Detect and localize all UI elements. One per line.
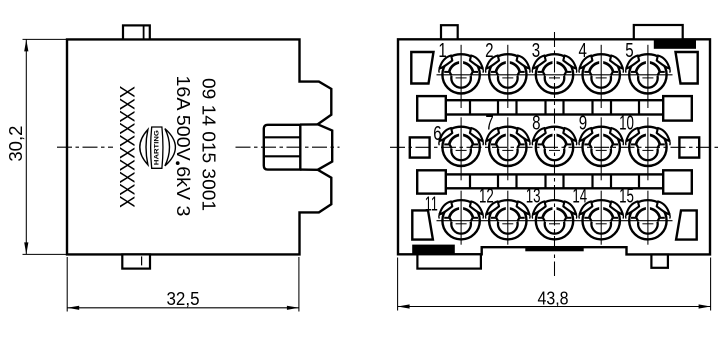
svg-text:13: 13 <box>526 185 541 208</box>
svg-text:4: 4 <box>579 39 587 62</box>
dimension 32,5 arrow right <box>287 306 299 310</box>
dimension 32,5 line <box>67 307 299 309</box>
slot bar 2 divider at x=498 <box>497 174 499 188</box>
dimension 30,2 arrow up <box>24 39 28 51</box>
contact nose bottom edge <box>300 168 318 171</box>
bottom fixing tab <box>122 254 150 268</box>
coding mark black bottom left <box>412 245 455 255</box>
HARTING logo right crescent <box>165 129 176 166</box>
slot bar 2 divider at x=545.5 <box>544 174 546 188</box>
slot bar 2 divider at x=563.5 <box>562 174 564 188</box>
bottom right small tab <box>651 255 668 268</box>
polarization slot bar 2 body <box>446 174 663 188</box>
contact 7 vertical axis line <box>507 117 509 180</box>
dimension 43,8 line <box>398 306 711 308</box>
svg-text:15: 15 <box>619 185 634 208</box>
svg-text:10: 10 <box>619 112 634 135</box>
HARTING logo left crescent <box>140 130 148 165</box>
svg-text:16A 500V 6kV 3: 16A 500V 6kV 3 <box>173 76 194 217</box>
slot bar 2 divider at x=516.5 <box>515 174 517 188</box>
guide pocket top right <box>676 52 698 84</box>
svg-text:32,5: 32,5 <box>167 288 200 309</box>
bottom left tab <box>417 254 481 268</box>
svg-text:9: 9 <box>579 112 587 135</box>
top fixing tab <box>123 25 150 39</box>
coding mark black top right <box>654 39 696 49</box>
contact 9 vertical axis line <box>600 117 602 180</box>
contact 2 vertical axis line <box>507 45 509 108</box>
HARTING logo barrel <box>151 127 163 168</box>
vertical centre line right view <box>554 32 556 276</box>
slot bar 2 right end cap <box>663 170 692 193</box>
contact 3 cavity <box>532 54 576 93</box>
contact 5 vertical axis line <box>647 45 649 108</box>
contact 12 vertical axis line <box>507 191 509 245</box>
contact 14 cavity <box>579 200 623 239</box>
svg-text:11: 11 <box>425 192 438 215</box>
contact 13 cavity <box>532 200 576 239</box>
svg-text:HARTING: HARTING <box>154 130 161 165</box>
slot bar 1 divider at x=611 <box>610 100 612 114</box>
contact 1 cavity <box>439 54 483 93</box>
dimension 32,5 extension line left <box>66 257 68 312</box>
HARTING logo registered mark dot <box>176 161 180 165</box>
coding mark black bottom middle <box>525 247 583 251</box>
top small tab <box>441 25 458 39</box>
contact 12 cavity <box>486 200 530 239</box>
contact 15 vertical axis line <box>647 191 649 245</box>
module body outline with mating-side profile <box>67 39 332 254</box>
top tab inner line <box>143 25 145 39</box>
svg-text:3: 3 <box>532 39 540 62</box>
centre line mask behind marking texts <box>113 139 232 155</box>
left view centre line <box>57 146 340 148</box>
svg-text:XXXXXXXXXX: XXXXXXXXXX <box>115 86 138 208</box>
row 3 horizontal axis line <box>437 220 673 222</box>
side square left <box>410 137 430 157</box>
contact 4 cavity <box>579 54 623 93</box>
slot bar 2 divider at x=470 <box>469 174 471 188</box>
slot bar 1 divider at x=470 <box>469 100 471 114</box>
top wide tab <box>634 25 683 39</box>
slot bar 1 left end cap <box>417 96 446 121</box>
slot bar 1 divider at x=639 <box>638 100 640 114</box>
guide pocket top left <box>411 52 433 84</box>
svg-text:09 14 015 3001: 09 14 015 3001 <box>199 78 220 211</box>
contact 7 cavity <box>486 127 530 166</box>
svg-text:12: 12 <box>479 185 494 208</box>
polarization slot bar 1 body <box>446 100 663 114</box>
contact 8 cavity <box>532 127 576 166</box>
dimension 30,2 extension line bottom <box>23 253 67 255</box>
dimension 43,8 arrow right <box>699 304 711 308</box>
svg-text:2: 2 <box>485 39 493 62</box>
slot bar 2 divider at x=639 <box>638 174 640 188</box>
slot bar 1 divider at x=498 <box>497 100 499 114</box>
contact 1 vertical axis line <box>460 45 462 108</box>
guide pocket bottom left <box>412 210 433 239</box>
contact 2 cavity <box>486 54 530 93</box>
bottom tab inner line <box>141 256 143 265</box>
dimension 32,5 arrow left <box>67 306 79 310</box>
slot bar 2 divider at x=592.5 <box>591 174 593 188</box>
dimension 32,5 extension line right <box>298 257 300 312</box>
slot bar 1 divider at x=516.5 <box>515 100 517 114</box>
nose inner line lower <box>265 155 301 157</box>
side square right <box>679 137 699 157</box>
svg-text:1: 1 <box>438 39 446 62</box>
slot bar 2 left end cap <box>417 170 446 193</box>
contact 9 cavity <box>579 127 623 166</box>
housing face outline <box>398 39 710 254</box>
contact 6 vertical axis line <box>460 117 462 180</box>
contact 5 cavity <box>626 54 670 93</box>
slot bar 1 right end cap <box>663 96 692 121</box>
dimension 43,8 extension line left <box>397 258 399 311</box>
row 1 horizontal axis line <box>437 74 673 76</box>
nose inner line upper <box>265 136 301 138</box>
dimension 30,2 line <box>25 39 27 254</box>
svg-text:43,8: 43,8 <box>538 288 569 309</box>
contact nose top edge <box>300 123 318 126</box>
guide pocket bottom right <box>676 210 697 239</box>
contact nose body (side view) <box>264 125 301 170</box>
contact 4 vertical axis line <box>600 45 602 108</box>
contact 15 cavity <box>626 200 670 239</box>
dimension 43,8 extension line right <box>710 258 712 311</box>
contact 10 vertical axis line <box>647 117 649 180</box>
contact 11 cavity <box>439 200 483 239</box>
slot bar 1 divider at x=592.5 <box>591 100 593 114</box>
contact 11 vertical axis line <box>460 191 462 245</box>
svg-text:8: 8 <box>532 112 540 135</box>
dimension 43,8 arrow left <box>398 304 410 308</box>
slot bar 1 divider at x=545.5 <box>544 100 546 114</box>
slot bar 2 divider at x=611 <box>610 174 612 188</box>
dimension 30,2 arrow down <box>24 242 28 254</box>
slot bar 1 divider at x=563.5 <box>562 100 564 114</box>
svg-text:5: 5 <box>625 39 633 62</box>
svg-text:7: 7 <box>485 112 493 135</box>
svg-text:30,2: 30,2 <box>5 126 26 162</box>
contact 6 cavity <box>439 127 483 166</box>
dimension 30,2 extension line top <box>23 38 67 40</box>
contact 10 cavity <box>626 127 670 166</box>
svg-text:6: 6 <box>433 122 441 145</box>
contact 14 vertical axis line <box>600 191 602 245</box>
horizontal centre line right view <box>390 146 719 148</box>
svg-text:14: 14 <box>572 185 587 208</box>
